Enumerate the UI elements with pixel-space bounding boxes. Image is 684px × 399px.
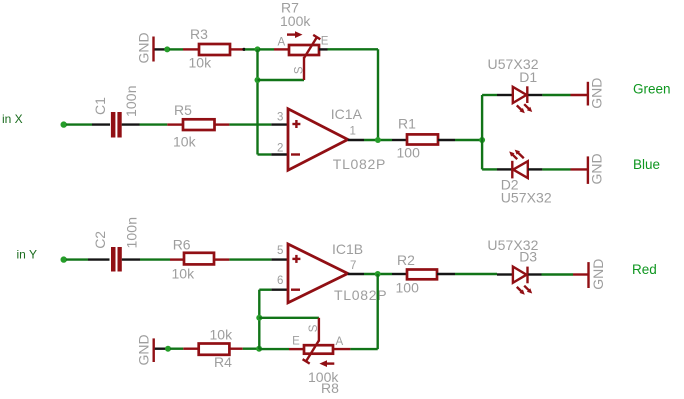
svg-text:E: E bbox=[292, 336, 300, 348]
svg-text:R3: R3 bbox=[190, 26, 208, 42]
svg-text:IC1B: IC1B bbox=[332, 241, 363, 257]
svg-text:Blue: Blue bbox=[633, 157, 660, 172]
svg-text:GND: GND bbox=[136, 334, 152, 365]
svg-text:S: S bbox=[308, 324, 320, 332]
svg-text:Red: Red bbox=[632, 262, 657, 277]
svg-text:GND: GND bbox=[588, 78, 604, 109]
svg-text:S: S bbox=[294, 66, 306, 74]
svg-text:in Y: in Y bbox=[17, 248, 37, 262]
svg-text:100k: 100k bbox=[280, 13, 311, 29]
svg-text:7: 7 bbox=[350, 260, 356, 272]
svg-text:100n: 100n bbox=[123, 217, 139, 249]
svg-text:C1: C1 bbox=[92, 97, 108, 115]
svg-text:Green: Green bbox=[633, 82, 671, 97]
svg-text:6: 6 bbox=[277, 275, 283, 287]
svg-text:R5: R5 bbox=[174, 102, 192, 118]
svg-text:2: 2 bbox=[277, 142, 283, 154]
svg-text:A: A bbox=[336, 336, 344, 348]
svg-text:U57X32: U57X32 bbox=[487, 237, 538, 253]
svg-text:A: A bbox=[278, 36, 286, 48]
svg-text:100n: 100n bbox=[123, 86, 139, 118]
svg-text:GND: GND bbox=[136, 32, 152, 63]
svg-text:100: 100 bbox=[397, 144, 421, 160]
svg-text:C2: C2 bbox=[92, 231, 108, 249]
svg-text:in X: in X bbox=[2, 112, 23, 126]
svg-text:3: 3 bbox=[277, 112, 283, 124]
svg-text:GND: GND bbox=[588, 153, 604, 184]
svg-text:IC1A: IC1A bbox=[331, 106, 363, 122]
svg-text:GND: GND bbox=[590, 259, 606, 290]
svg-text:R1: R1 bbox=[398, 116, 416, 132]
svg-text:10k: 10k bbox=[173, 134, 197, 150]
svg-text:U57X32: U57X32 bbox=[501, 190, 552, 206]
svg-text:R2: R2 bbox=[397, 252, 415, 268]
svg-text:100: 100 bbox=[396, 280, 420, 296]
svg-text:R8: R8 bbox=[321, 380, 339, 396]
svg-text:5: 5 bbox=[277, 245, 283, 257]
svg-text:10k: 10k bbox=[172, 265, 196, 281]
svg-text:10k: 10k bbox=[210, 326, 234, 342]
svg-text:TL082P: TL082P bbox=[333, 156, 386, 172]
svg-text:R4: R4 bbox=[214, 354, 232, 370]
svg-text:E: E bbox=[321, 36, 329, 48]
svg-text:1: 1 bbox=[350, 126, 356, 138]
svg-text:R6: R6 bbox=[173, 236, 191, 252]
svg-text:10k: 10k bbox=[189, 55, 213, 71]
svg-text:U57X32: U57X32 bbox=[488, 56, 539, 72]
